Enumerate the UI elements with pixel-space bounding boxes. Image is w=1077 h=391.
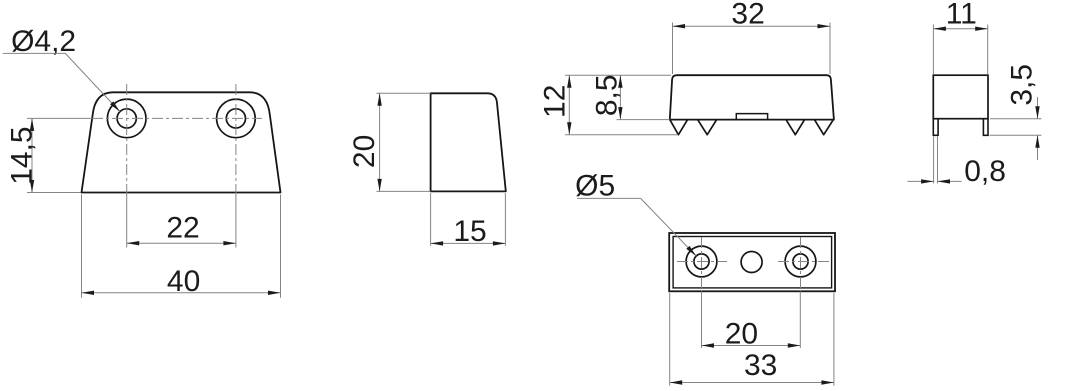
label diameter 4,2 leader line	[65, 53, 120, 111]
dimension 20 arrow up	[377, 93, 381, 106]
svg-text:40: 40	[167, 265, 200, 298]
hole 2 counterbore circle	[217, 99, 256, 138]
dimension 22 extension line right	[235, 193, 237, 248]
dimension 32 arrow left	[673, 24, 686, 28]
dimension 20 extension line top	[377, 92, 431, 94]
dimension 22 arrow left	[127, 241, 140, 245]
svg-text:20: 20	[725, 317, 758, 350]
label diameter 4,2 leader bar	[3, 52, 66, 54]
dimension 15 arrow right	[493, 241, 506, 245]
dimension 40 arrow left	[82, 291, 95, 295]
dimension 0,8 extension line right	[937, 137, 939, 184]
right hole counterbore circle	[785, 246, 816, 277]
side view outline	[431, 93, 506, 191]
left leg	[933, 119, 938, 136]
dimension 32 arrow right	[818, 24, 831, 28]
dimension 15 arrow left	[431, 241, 444, 245]
dimension 3,5 extension line lower	[990, 134, 1042, 136]
svg-text:20: 20	[348, 135, 381, 168]
right hole bore circle	[793, 254, 808, 269]
dimension 0,8 right arrow	[938, 179, 951, 183]
spike tooth 4	[814, 120, 833, 135]
dimension 14,5 arrow down	[30, 180, 34, 193]
dimension 3,5 upper arrow tail	[1037, 97, 1039, 119]
dimension 22 arrow right	[223, 241, 236, 245]
spike tooth 1	[670, 120, 688, 135]
dimension 40 line	[82, 292, 281, 294]
dimension 20 extension line right	[799, 291, 801, 348]
dimension 0,8 right arrow tail	[938, 180, 962, 182]
dimension 33 arrow right	[821, 380, 834, 384]
bottom view outer rectangle	[669, 233, 835, 291]
left hole bore circle	[694, 254, 709, 269]
dimension 12 extension line top	[565, 74, 671, 76]
dimension 22 extension line left	[126, 193, 128, 248]
spiked body outline	[670, 75, 834, 119]
middle circle	[741, 252, 762, 273]
dimension 20 arrow left	[702, 343, 715, 347]
svg-text:3,5: 3,5	[1006, 64, 1039, 106]
bottom view inner rectangle	[673, 237, 832, 288]
svg-text:32: 32	[731, 0, 764, 30]
dimension 40 arrow right	[268, 291, 281, 295]
dimension 14,5 extension line bottom	[27, 192, 81, 194]
dimension 20 extension line bottom	[377, 190, 431, 192]
right leg	[983, 119, 988, 136]
dimension 12 line	[568, 75, 570, 135]
label diameter 5 leader line	[641, 198, 697, 256]
left hole vertical centerline	[701, 237, 703, 291]
hole 1 bore circle	[117, 109, 136, 128]
dimension 33 line	[670, 382, 834, 384]
svg-text:33: 33	[744, 349, 777, 382]
center nib rectangle	[736, 114, 767, 120]
dimension 11 extension line right	[987, 25, 989, 75]
svg-text:Ø5: Ø5	[575, 170, 615, 203]
dimension 3,5 extension line upper	[990, 118, 1042, 120]
dimension 8,5 arrow down	[618, 107, 622, 120]
dimension 33 arrow left	[670, 380, 683, 384]
label diameter 4,2 leader arrowhead	[110, 101, 120, 111]
dimension 22 line	[127, 242, 236, 244]
hole 2 bore circle	[226, 109, 245, 128]
horizontal centerline bottom view right part	[778, 261, 830, 263]
dimension 40 extension line left	[81, 195, 83, 298]
dimension 8,5 extension line bottom	[617, 119, 670, 121]
dimension 11 arrow right	[975, 27, 988, 31]
dimension 15 line	[431, 242, 506, 244]
dimension 0,8 left arrow	[921, 179, 934, 183]
right hole vertical centerline	[800, 237, 802, 291]
dimension 0,8 left arrow tail	[907, 180, 933, 182]
profile box outline	[933, 75, 988, 119]
dimension 33 extension line left	[669, 293, 671, 386]
horizontal centerline through holes	[27, 117, 92, 119]
dimension 32 line	[673, 25, 831, 27]
dimension 12 extension line bottom	[565, 134, 678, 136]
dimension 8,5 arrow up	[618, 75, 622, 88]
svg-text:8,5: 8,5	[591, 74, 624, 116]
dimension 15 extension line left	[430, 193, 432, 246]
dimension 12 arrow down	[567, 122, 571, 135]
front view outline	[82, 92, 281, 192]
dimension 32 extension line right	[829, 23, 831, 75]
dimension 12 arrow up	[567, 75, 571, 88]
svg-text:11: 11	[946, 0, 977, 31]
dimension 8,5 line	[619, 75, 621, 119]
dimension 40 extension line right	[280, 195, 282, 298]
dimension 11 arrow left	[933, 27, 946, 31]
horizontal centerline bottom view left part	[677, 261, 727, 263]
dimension 14,5 arrow up	[30, 118, 34, 130]
dimension 15 extension line right	[504, 193, 506, 246]
dimension 20 line	[379, 93, 381, 191]
spike tooth 3	[786, 120, 805, 135]
label diameter 5 leader arrowhead	[686, 246, 696, 256]
hole 1 vertical centerline	[126, 84, 128, 193]
hole 2 vertical centerline	[235, 84, 237, 193]
dimension 33 extension line right	[833, 293, 835, 386]
dimension 3,5 upper arrow	[1035, 106, 1039, 119]
label diameter 5 leader bar	[577, 197, 641, 199]
svg-text:12: 12	[539, 85, 572, 118]
dimension 20 arrow down	[377, 179, 381, 192]
dimension 11 extension line left	[932, 25, 934, 75]
svg-text:15: 15	[453, 215, 486, 248]
dimension 14,5 line	[31, 118, 33, 192]
dimension 3,5 lower arrow	[1035, 135, 1039, 148]
dimension 3,5 lower arrow tail	[1037, 135, 1039, 160]
left hole counterbore circle	[686, 246, 717, 277]
dimension 20 line	[702, 345, 801, 347]
dimension 0,8 extension line left	[933, 137, 935, 184]
svg-text:14,5: 14,5	[5, 126, 38, 184]
spike tooth 2	[698, 120, 717, 135]
hole 1 counterbore circle	[107, 99, 146, 138]
svg-text:0,8: 0,8	[964, 155, 1006, 188]
dimension 20 extension line left	[701, 291, 703, 348]
dimension 20 arrow right	[788, 343, 801, 347]
dimension 32 extension line left	[672, 23, 674, 75]
dimension 11 line	[933, 28, 987, 30]
svg-text:22: 22	[166, 212, 199, 245]
